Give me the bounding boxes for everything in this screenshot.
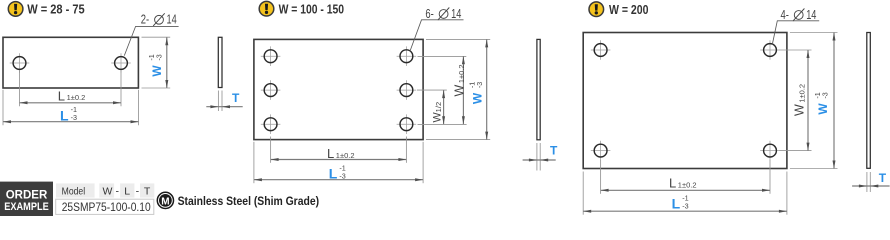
svg-text:L: L — [669, 176, 676, 191]
svg-text:-: - — [115, 185, 119, 197]
extension lines W (plate 1) — [142, 36, 171, 38]
svg-text:-: - — [136, 185, 140, 197]
label L -1/-3 (plate 2, blue) — [329, 163, 346, 181]
label W1/2 (plate 2) — [431, 102, 443, 123]
plate 2 outline (front view W=100-150) — [254, 39, 423, 139]
leader line 6-dia14 (plate 2) — [410, 20, 464, 52]
hole 2A (top-left, plate 2) — [261, 46, 281, 66]
label L -1/-3 (plate 3, blue) — [672, 193, 689, 211]
svg-text:1±0.2: 1±0.2 — [678, 181, 697, 190]
svg-text:W: W — [452, 85, 466, 97]
W-L-T chips — [99, 183, 154, 197]
svg-text:L: L — [327, 146, 334, 161]
warning icon drawing 1 — [8, 2, 23, 17]
extension lines L1 (plate 3 holes) — [600, 160, 602, 194]
extension lines T (side view 1) — [217, 91, 219, 112]
label W1±0.2 (plate 2) — [452, 64, 466, 96]
label 6-dia14 (plate 2) — [425, 7, 461, 21]
svg-text:L: L — [672, 196, 681, 212]
part number box — [56, 199, 154, 214]
label W1±0.2 (plate 3) — [793, 84, 807, 116]
dimension L -1/-3 (plate 1) — [3, 121, 139, 123]
dimension L1±0.2 (plate 1) — [20, 102, 122, 104]
hole 2D (mid-right, plate 2) — [397, 80, 417, 100]
svg-text:14: 14 — [806, 8, 816, 22]
svg-text:-3: -3 — [475, 82, 484, 88]
svg-text:-3: -3 — [155, 54, 164, 60]
dimension W -1/-3 (plate 1) — [166, 37, 168, 88]
svg-text:L: L — [60, 107, 69, 123]
label W -1/-3 (plate 2, blue) — [468, 82, 485, 104]
svg-text:W = 100 - 150: W = 100 - 150 — [279, 2, 345, 16]
svg-text:-3: -3 — [71, 113, 77, 122]
svg-text:-3: -3 — [682, 201, 688, 210]
svg-text:1±0.2: 1±0.2 — [67, 93, 86, 102]
label W -1/-3 (plate 1, blue) — [147, 54, 164, 76]
extension lines T (side view 2) — [536, 143, 538, 171]
svg-text:T: T — [879, 171, 887, 185]
dimension W1/2 (plate 2) — [443, 90, 445, 124]
extension lines W dims (plate 3 right side) — [779, 49, 811, 51]
svg-text:14: 14 — [167, 13, 177, 27]
svg-text:W = 28 - 75: W = 28 - 75 — [27, 3, 85, 17]
dimension L1±0.2 (plate 2) — [271, 159, 407, 161]
svg-text:-3: -3 — [821, 92, 830, 98]
label L1±0.2 (plate 1) — [58, 88, 86, 103]
hole 1A (left, plate 1) — [10, 53, 30, 73]
svg-text:1±0.2: 1±0.2 — [797, 84, 806, 103]
dimension L -1/-3 (plate 2) — [254, 179, 423, 181]
hole 2B (top-right, plate 2) — [397, 46, 417, 66]
extension lines L (plate 1 edges) — [2, 90, 4, 125]
svg-text:T: T — [144, 185, 151, 197]
svg-text:Stainless Steel (Shim Grade): Stainless Steel (Shim Grade) — [178, 194, 320, 208]
svg-text:T: T — [550, 143, 558, 157]
svg-text:T: T — [232, 91, 240, 105]
side view plate 3 (thickness) — [867, 33, 871, 169]
side view plate 2 (thickness) — [537, 39, 540, 139]
dimension W -1/-3 (plate 3) — [833, 33, 835, 169]
leader line 4-dia14 (plate 3) — [772, 21, 819, 45]
svg-text:L: L — [124, 185, 130, 197]
extension lines L1 (plate 1 holes) — [19, 70, 21, 106]
svg-text:L: L — [329, 166, 338, 182]
svg-text:ORDER: ORDER — [6, 188, 48, 202]
svg-text:Model: Model — [62, 185, 86, 197]
leader line 2-dia14 (plate 1) — [124, 26, 178, 55]
svg-text:25SMP75-100-0.10: 25SMP75-100-0.10 — [62, 202, 151, 214]
svg-text:W: W — [102, 185, 112, 197]
svg-text:-3: -3 — [339, 171, 345, 180]
svg-text:2-: 2- — [141, 13, 149, 27]
label L1±0.2 (plate 3) — [669, 176, 697, 191]
svg-text:W: W — [470, 92, 484, 104]
svg-text:14: 14 — [451, 7, 461, 21]
svg-text:W: W — [150, 65, 164, 77]
dimension T (side view 3) — [852, 185, 890, 187]
svg-text:1/2: 1/2 — [434, 102, 443, 112]
svg-text:L: L — [58, 88, 65, 103]
extension lines W dims (plate 2 right side) — [418, 55, 467, 57]
svg-text:W: W — [793, 104, 807, 116]
extension lines L (plate 3 edges) — [582, 172, 584, 215]
hole 1B (right, plate 1) — [111, 53, 131, 73]
dimension L1±0.2 (plate 3) — [601, 189, 770, 191]
hole 3C (bottom-left, plate 3) — [591, 141, 611, 161]
label 4-dia14 (plate 3) — [781, 8, 817, 22]
label W -1/-3 (plate 3, blue) — [813, 92, 830, 114]
svg-text:M: M — [161, 196, 169, 207]
side view plate 1 (thickness) — [218, 37, 222, 87]
svg-text:EXAMPLE: EXAMPLE — [4, 201, 49, 213]
warning icon drawing 2 — [259, 1, 274, 16]
dimension W -1/-3 (plate 2) — [486, 39, 488, 139]
hole 3D (bottom-right, plate 3) — [760, 141, 780, 161]
svg-text:4-: 4- — [781, 8, 789, 22]
svg-text:W: W — [816, 103, 830, 115]
dimension T (side view 2) — [523, 159, 556, 161]
plate 1 outline (front view W=28-75) — [3, 37, 138, 88]
hole 2E (bottom-left, plate 2) — [261, 114, 281, 134]
extension lines T (side view 3) — [866, 172, 868, 192]
hole 3B (top-right, plate 3) — [760, 40, 780, 60]
hole 2C (mid-left, plate 2) — [261, 80, 281, 100]
hole 3A (top-left, plate 3) — [591, 40, 611, 60]
extension lines L1 (plate 2 holes) — [270, 137, 272, 163]
plate 3 outline (front view W=200) — [583, 33, 787, 169]
hole 2F (bottom-right, plate 2) — [397, 114, 417, 134]
dimension W1±0.2 (plate 3) — [807, 50, 809, 151]
svg-text:6-: 6- — [425, 7, 433, 21]
dimension T (side view 1) — [206, 106, 242, 108]
svg-text:1±0.2: 1±0.2 — [457, 64, 466, 83]
warning icon drawing 3 — [589, 2, 604, 17]
label 2-dia14 (plate 1) — [141, 13, 177, 27]
label L1±0.2 (plate 2) — [327, 146, 355, 161]
M material logo — [157, 192, 173, 208]
extension lines L (plate 2 edges) — [253, 142, 255, 183]
dimension L -1/-3 (plate 3) — [583, 210, 787, 212]
label L -1/-3 (plate 1, blue) — [60, 105, 77, 123]
svg-text:W = 200: W = 200 — [609, 3, 649, 17]
dimension W1±0.2 (plate 2) — [462, 56, 464, 124]
svg-text:1±0.2: 1±0.2 — [336, 151, 355, 160]
model chip — [56, 183, 95, 197]
order example dark box — [0, 182, 53, 216]
